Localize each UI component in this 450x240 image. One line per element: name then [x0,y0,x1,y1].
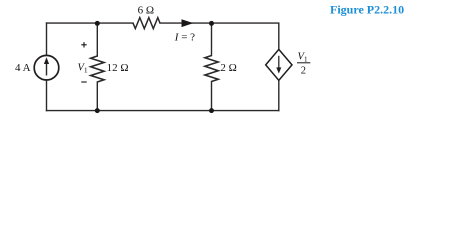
wire diamond bottom to bottom-right corner [278,80,280,110]
svg-text:V1: V1 [298,51,308,63]
label V1/2 fraction [297,51,310,76]
resistor 2 ohm (vertical zigzag) [205,56,218,82]
wire 2-ohm branch bottom lead [211,82,213,111]
svg-text:6 Ω: 6 Ω [138,4,154,16]
node junction top-right (2 ohm branch) [209,21,214,26]
wire 12-ohm branch top lead [96,23,98,56]
wire left edge lower (bottom rail to source) [46,80,48,111]
svg-text:2: 2 [301,65,306,76]
wire left edge upper (source to top rail) [46,23,48,55]
svg-text:2 Ω: 2 Ω [220,62,236,74]
node junction bottom-left (12 ohm branch) [95,108,100,113]
wire 2-ohm branch top lead [211,23,213,55]
svg-text:4 A: 4 A [15,62,31,74]
wire 12-ohm branch bottom lead [96,82,98,111]
wire top rail left segment [47,22,134,24]
resistor R 12 ohm (vertical zigzag) [91,56,104,82]
node junction top-left (12 ohm branch) [95,21,100,26]
svg-text:Figure P2.2.10: Figure P2.2.10 [330,2,404,16]
svg-text:V1: V1 [78,62,88,74]
current source I1 4A (circle with up arrow) [34,55,59,80]
node junction bottom-right (2 ohm branch) [209,108,214,113]
svg-text:12 Ω: 12 Ω [107,62,129,74]
label plus sign [81,42,86,47]
current direction arrow I [182,19,194,27]
svg-text:I = ?: I = ? [174,32,195,44]
wire top rail middle segment [160,22,212,24]
dependent source (diamond with down arrow) [266,49,292,80]
wire top rail right segment with corner to diamond [212,23,279,49]
label minus sign [81,81,86,83]
resistor 6 ohm (horizontal zigzag) [133,18,160,29]
wire bottom rail [47,110,279,112]
